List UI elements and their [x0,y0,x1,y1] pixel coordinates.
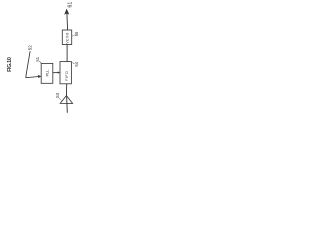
svg-text:PLL: PLL [46,70,50,77]
svg-text:55: 55 [74,31,79,36]
leader to A1 [59,98,62,101]
amplifier A1 (triangle) [60,96,72,104]
wire input elbow into U1 [26,51,39,77]
wire U1 to U2 [53,72,59,74]
wire U3 up to output arrow [66,14,69,31]
svg-text:52: 52 [28,45,33,50]
block U3 (top box) [62,30,71,45]
arrowhead into U1 left side [38,75,42,78]
svg-text:FIFO: FIFO [64,71,69,81]
leader to U1 corner [39,61,41,63]
block U1 (left box) [41,63,53,83]
svg-text:53: 53 [55,92,60,97]
svg-text:FIG.10: FIG.10 [7,57,13,72]
leader to U3 edge [72,35,75,36]
svg-text:VCXO: VCXO [66,32,70,43]
leader to U2 corner [72,63,75,64]
wire through A1 down [66,96,69,113]
wire U2 down to amplifier A1 [65,84,67,96]
block U2 (right box) [60,62,71,84]
svg-text:61: 61 [67,2,73,8]
svg-text:54: 54 [74,61,79,66]
arrowhead into U2 left side [58,71,61,73]
wire U2 up to U3 [66,45,68,62]
arrowhead output (points up) [64,9,69,15]
